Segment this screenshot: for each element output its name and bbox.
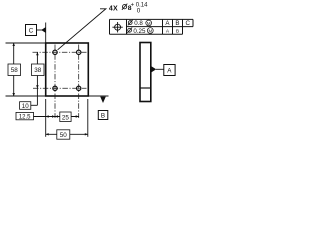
extension line bottom edge right (datum B) [88,95,108,97]
hole top-right [77,50,81,54]
centerline column 1 vertical [54,45,56,119]
dimension 38 line [36,52,38,88]
part front view outline [46,43,89,96]
svg-text:C: C [185,20,190,27]
hole bottom-right [77,86,81,90]
dimension 38 box [32,64,45,76]
svg-text:M: M [148,29,152,34]
svg-text:0.8: 0.8 [134,20,143,27]
svg-text:50: 50 [60,132,68,139]
centerline row 1 horizontal [33,51,87,53]
dimension 25 box [60,112,71,122]
dimension 25 line [55,116,79,118]
leader from hole callout to hole [58,9,106,50]
extension line top edge left [6,42,46,44]
position symbol [112,22,122,32]
dimension 10 line and leader [36,88,38,105]
extension line bottom edge left [6,95,46,97]
datum C symbol [26,25,37,36]
svg-text:C: C [29,28,34,35]
svg-text:58: 58 [11,67,19,74]
extension line right edge down [87,99,89,137]
FCF row2: dia 0.25 M A B [128,28,132,32]
svg-text:12.5: 12.5 [19,115,31,121]
dimension 58 line [13,43,15,96]
svg-text:0: 0 [137,8,141,15]
svg-text:10: 10 [22,103,29,110]
dimension 10 box [20,102,31,110]
svg-text:B: B [175,20,179,27]
extension line left edge down [45,99,47,137]
dimension 12.5 box [16,112,34,119]
side view outline [140,43,151,102]
svg-text:M: M [147,21,151,26]
svg-text:B: B [176,28,179,34]
dimension 58 box [8,64,21,76]
datum A symbol [152,66,157,72]
svg-text:38: 38 [34,67,42,74]
svg-text:0.25: 0.25 [133,28,146,35]
feature control frame outline [110,19,194,34]
dimension 12.5 line [34,116,56,118]
svg-text:4X: 4X [109,5,118,12]
FCF row1: dia 0.8 M A B C [128,21,132,25]
svg-text:B: B [101,113,105,120]
centerline column 2 vertical [78,45,80,119]
side view internal edge [140,87,151,89]
hole bottom-left [53,86,57,90]
extension line left edge up (datum C) [45,23,47,44]
dimension 50 box [57,130,70,139]
svg-text:25: 25 [62,114,70,121]
centerline row 2 horizontal [33,87,87,89]
datum B symbol [100,97,106,103]
dimension 50 line [46,133,88,135]
hole top-left [53,50,57,54]
